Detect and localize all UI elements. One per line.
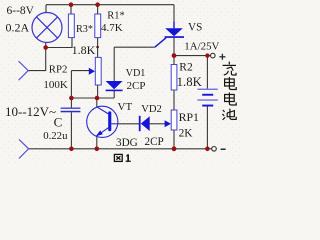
svg-text:2K: 2K	[179, 128, 194, 140]
svg-text:4.7K: 4.7K	[101, 22, 123, 34]
svg-text:0.2A: 0.2A	[6, 20, 30, 34]
svg-text:VS: VS	[188, 21, 202, 33]
svg-text:1.8K: 1.8K	[72, 43, 96, 57]
svg-text:2CP: 2CP	[127, 80, 146, 92]
svg-text:10--12V~: 10--12V~	[5, 104, 56, 119]
svg-text:VD1: VD1	[126, 68, 146, 79]
svg-text:RP1: RP1	[179, 110, 199, 124]
svg-text:VD2: VD2	[141, 104, 162, 115]
svg-text:1.8K: 1.8K	[177, 75, 203, 89]
svg-text:R3*: R3*	[76, 24, 93, 35]
svg-text:C: C	[54, 115, 63, 130]
svg-text:3DG: 3DG	[116, 137, 138, 149]
svg-text:R1*: R1*	[107, 11, 125, 22]
svg-text:VT: VT	[118, 101, 133, 113]
svg-text:6--8V: 6--8V	[7, 5, 35, 17]
svg-text:0.22u: 0.22u	[43, 130, 68, 142]
svg-text:RP2: RP2	[49, 63, 68, 75]
svg-text:1A/25V: 1A/25V	[184, 40, 219, 52]
svg-text:2CP: 2CP	[145, 136, 164, 148]
svg-text:R2: R2	[179, 62, 193, 74]
svg-text:100K: 100K	[43, 79, 68, 91]
